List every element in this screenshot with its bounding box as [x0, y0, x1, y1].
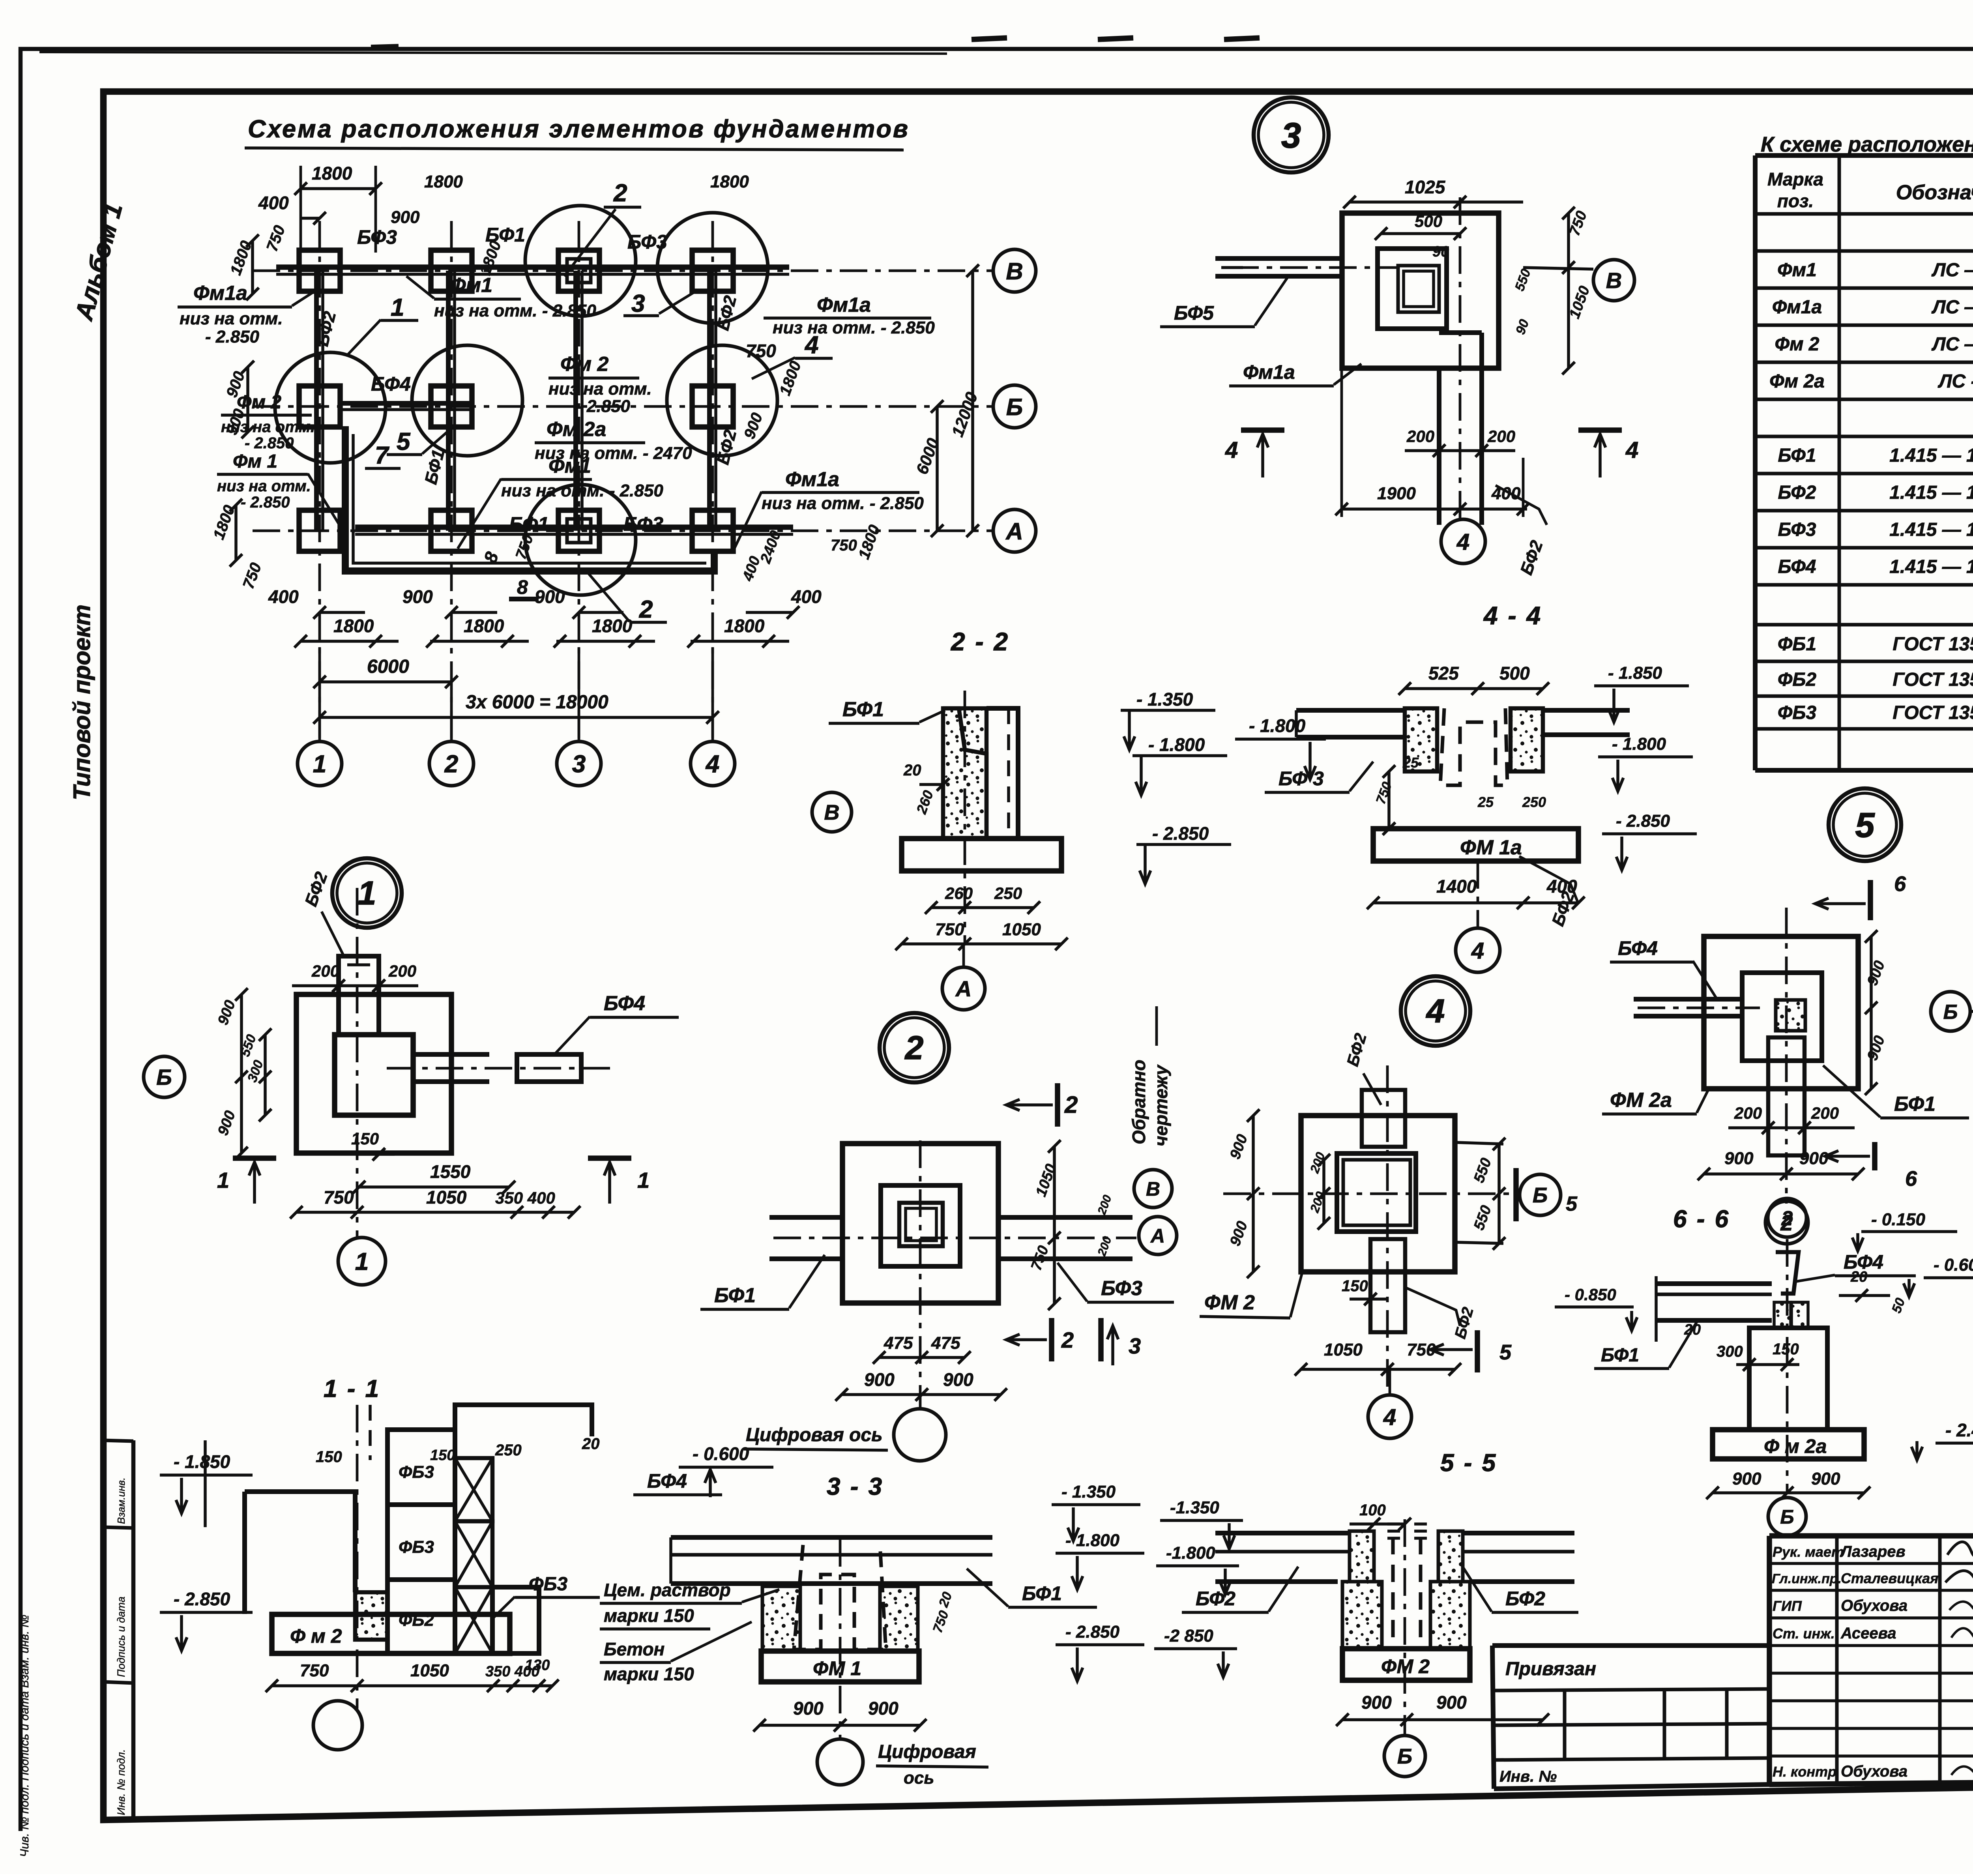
- svg-text:2: 2: [639, 596, 653, 623]
- detail 1 beam БФ4 right: [413, 1052, 489, 1057]
- svg-text:- 2.850: - 2.850: [1152, 823, 1209, 844]
- svg-text:Фм 2а: Фм 2а: [547, 418, 606, 441]
- detail 1 column: [339, 956, 379, 1035]
- svg-text:ФМ 1: ФМ 1: [813, 1657, 861, 1679]
- signatures squiggles: [1947, 1533, 1973, 1558]
- svg-text:В: В: [1006, 258, 1023, 285]
- svg-text:ФМ 2а: ФМ 2а: [1610, 1089, 1672, 1112]
- svg-text:750: 750: [935, 920, 964, 939]
- svg-text:Б: Б: [1533, 1183, 1548, 1207]
- svg-text:Привязан: Привязан: [1505, 1659, 1596, 1679]
- svg-text:БФ1: БФ1: [1778, 445, 1816, 466]
- svg-text:низ на отм.: низ на отм.: [180, 309, 283, 328]
- svg-text:300: 300: [1717, 1343, 1743, 1360]
- svg-text:900: 900: [943, 1369, 973, 1390]
- section 1-1 ledge top: [455, 1405, 592, 1436]
- svg-text:А: А: [955, 976, 972, 1001]
- svg-text:200: 200: [311, 962, 339, 980]
- svg-text:250: 250: [1522, 794, 1546, 810]
- svg-text:6: 6: [1894, 872, 1906, 896]
- svg-text:4: 4: [705, 751, 719, 778]
- svg-text:Фм 2а: Фм 2а: [1769, 371, 1825, 392]
- svg-text:1400: 1400: [1436, 876, 1477, 897]
- svg-text:ГОСТ 13579 - 78: ГОСТ 13579 - 78: [1893, 702, 1973, 723]
- svg-text:1050: 1050: [1324, 1340, 1363, 1359]
- svg-text:Сталевицкая: Сталевицкая: [1841, 1570, 1938, 1586]
- title block frame: [1769, 1533, 1973, 1539]
- svg-text:низ на отм. - 2.850: низ на отм. - 2.850: [762, 494, 924, 513]
- svg-text:Схема расположения элементов: Схема расположения элементов фундаментов: [248, 115, 910, 143]
- svg-text:900: 900: [1732, 1469, 1761, 1488]
- svg-text:Фм 2: Фм 2: [560, 353, 609, 376]
- svg-text:3: 3: [1129, 1333, 1141, 1358]
- svg-text:3x 6000 = 18000: 3x 6000 = 18000: [466, 692, 608, 713]
- plan axis grid lines: [318, 221, 321, 741]
- svg-text:2: 2: [1064, 1092, 1078, 1118]
- section 6-6 БФ4 trapezoid: [1776, 1252, 1799, 1294]
- svg-text:поз.: поз.: [1777, 191, 1814, 211]
- svg-text:2: 2: [444, 751, 458, 778]
- svg-text:900: 900: [1724, 1149, 1754, 1168]
- section 3-3 slab band: [671, 1535, 992, 1540]
- svg-text:ФБ3: ФБ3: [399, 1462, 434, 1482]
- svg-text:- 1.350: - 1.350: [1136, 689, 1193, 710]
- svg-text:- 2.850: - 2.850: [205, 327, 260, 346]
- svg-text:900: 900: [864, 1369, 895, 1390]
- detail 5 beam left: [1634, 997, 1742, 1002]
- detail 4 inner pad: [1337, 1153, 1416, 1232]
- svg-text:низ на отм. - 2.850: низ на отм. - 2.850: [434, 301, 596, 320]
- svg-text:Марка: Марка: [1767, 169, 1823, 189]
- svg-text:200: 200: [1811, 1104, 1839, 1122]
- plan foundation pads: [299, 250, 340, 291]
- section 2-2 base pad: [902, 839, 1061, 871]
- svg-text:Фм1: Фм1: [450, 274, 492, 297]
- svg-text:Рук. мает: Рук. мает: [1773, 1544, 1844, 1560]
- section 1-1 block stack: [387, 1430, 455, 1505]
- svg-text:низ на отм.: низ на отм.: [217, 477, 311, 495]
- svg-text:Фм1: Фм1: [548, 455, 591, 477]
- detail 5 section mark 6 top: [1868, 880, 1873, 920]
- svg-text:А: А: [1150, 1225, 1165, 1247]
- svg-text:Фм 2: Фм 2: [1775, 334, 1819, 355]
- svg-text:Фм 2: Фм 2: [237, 392, 281, 413]
- svg-text:Б: Б: [1943, 1001, 1958, 1024]
- svg-text:А: А: [1005, 518, 1023, 545]
- svg-text:1550: 1550: [430, 1161, 471, 1182]
- section 5-5 hatched blocks: [1342, 1582, 1382, 1649]
- svg-text:20: 20: [582, 1435, 600, 1453]
- svg-text:Фм1: Фм1: [1777, 260, 1817, 281]
- svg-text:БФ1: БФ1: [509, 513, 549, 535]
- svg-text:500: 500: [1499, 663, 1530, 683]
- svg-text:Н. контр: Н. контр: [1773, 1764, 1836, 1780]
- svg-text:БФ4: БФ4: [604, 992, 645, 1015]
- svg-text:100: 100: [1359, 1502, 1386, 1519]
- svg-text:20: 20: [903, 762, 921, 779]
- svg-text:1800: 1800: [592, 616, 633, 636]
- section 1-1 x-blocks: [455, 1458, 492, 1521]
- svg-text:900: 900: [868, 1698, 899, 1719]
- svg-text:БФ 3: БФ 3: [1279, 768, 1324, 790]
- title block rows left part: [1769, 1562, 1973, 1565]
- svg-text:2 - 2: 2 - 2: [951, 627, 1009, 656]
- svg-text:150: 150: [430, 1447, 455, 1464]
- svg-text:1800: 1800: [424, 172, 463, 191]
- svg-text:Фм1а: Фм1а: [1772, 297, 1822, 318]
- plan axis circles 1-4: [298, 741, 342, 786]
- svg-text:2: 2: [1781, 1207, 1793, 1230]
- svg-text:низ на отм. - 2.850: низ на отм. - 2.850: [501, 481, 663, 500]
- svg-text:4: 4: [1225, 437, 1238, 463]
- detail 1 inner pad: [335, 1035, 413, 1115]
- plan pit edge outline: [345, 426, 714, 571]
- detail 3 node circle 4: [1441, 519, 1485, 564]
- detail 4 column strips: [1362, 1090, 1405, 1147]
- svg-text:1: 1: [391, 294, 404, 321]
- svg-text:БФ1: БФ1: [714, 1284, 756, 1307]
- svg-text:Обозначение: Обозначение: [1896, 181, 1973, 204]
- svg-text:- 2.850: - 2.850: [241, 494, 290, 511]
- svg-text:4: 4: [1471, 938, 1484, 964]
- svg-text:500: 500: [1415, 212, 1442, 230]
- svg-text:БФ1: БФ1: [1894, 1093, 1936, 1116]
- section 3-3 base pad ФМ1: [761, 1651, 919, 1682]
- svg-text:ЛС — 6: ЛС — 6: [1931, 334, 1973, 355]
- svg-text:БФ1: БФ1: [1022, 1582, 1062, 1605]
- svg-text:150: 150: [1342, 1277, 1368, 1295]
- section 1-1 base pad Фм2: [272, 1614, 510, 1653]
- svg-text:- 2.470: - 2.470: [1945, 1420, 1973, 1440]
- svg-text:3: 3: [572, 751, 586, 778]
- section 3-3 axis circle: [817, 1739, 863, 1785]
- svg-text:1 - 1: 1 - 1: [324, 1375, 380, 1402]
- detail 3 section marks 4: [1241, 427, 1284, 433]
- svg-text:БФ2: БФ2: [1778, 482, 1816, 503]
- svg-text:Инв. № подл.: Инв. № подл.: [115, 1749, 127, 1815]
- svg-text:1800: 1800: [464, 616, 504, 636]
- svg-text:900: 900: [535, 586, 565, 607]
- svg-text:4 - 4: 4 - 4: [1483, 601, 1542, 630]
- svg-text:1050: 1050: [410, 1661, 449, 1680]
- svg-text:- 2.850: - 2.850: [1065, 1622, 1120, 1642]
- svg-text:ФБ3: ФБ3: [399, 1537, 434, 1557]
- svg-text:- 1.350: - 1.350: [1061, 1482, 1116, 1502]
- detail 2 axis to circle: [919, 1140, 922, 1408]
- plan foundation beam БФ4 row Б: [341, 401, 470, 406]
- svg-text:750: 750: [1407, 1340, 1436, 1359]
- svg-text:Асеева: Асеева: [1840, 1625, 1896, 1642]
- plan foundation beams row А: [355, 524, 793, 530]
- svg-text:Лазарев: Лазарев: [1840, 1543, 1906, 1560]
- svg-text:Фм 1: Фм 1: [233, 451, 277, 472]
- svg-text:Чив. № подл. Подпись и дата: Чив. № подл. Подпись и дата Взам. инв. №: [18, 1615, 31, 1857]
- svg-text:900: 900: [1436, 1692, 1467, 1713]
- svg-text:-2 850: -2 850: [1164, 1626, 1213, 1646]
- svg-text:750: 750: [300, 1661, 329, 1680]
- detail 5 section mark 6 bottom: [1872, 1142, 1878, 1170]
- svg-text:3: 3: [1281, 116, 1301, 155]
- section 5-5 rebar marks: [1387, 1522, 1400, 1526]
- svg-text:2: 2: [613, 180, 627, 207]
- section 6-6 mortar blocks: [1774, 1302, 1791, 1328]
- detail 5 inner pad: [1742, 973, 1822, 1061]
- svg-text:К схеме расположения элементо: К схеме расположения элементов фундамент…: [1761, 133, 1973, 156]
- svg-text:1.415 — 1 вып. 1: 1.415 — 1 вып. 1: [1889, 556, 1973, 577]
- svg-text:В: В: [824, 801, 840, 824]
- svg-text:200: 200: [1406, 427, 1434, 446]
- svg-text:4: 4: [1383, 1404, 1396, 1430]
- svg-text:2: 2: [1061, 1327, 1074, 1352]
- svg-text:марки 150: марки 150: [604, 1664, 694, 1684]
- svg-text:ГОСТ 13579 - 78: ГОСТ 13579 - 78: [1893, 669, 1973, 690]
- detail 5 outer pad: [1704, 936, 1858, 1089]
- svg-text:ось: ось: [904, 1768, 934, 1788]
- svg-text:БФ3: БФ3: [1101, 1277, 1142, 1300]
- detail 4 marker circle: [1401, 976, 1470, 1046]
- detail 2 axis circles В А: [1134, 1170, 1172, 1208]
- section 2-2 column: [943, 708, 986, 839]
- svg-text:В: В: [1606, 268, 1622, 293]
- svg-text:6 - 6: 6 - 6: [1673, 1206, 1730, 1233]
- svg-text:750: 750: [746, 341, 776, 361]
- svg-text:1: 1: [637, 1168, 650, 1193]
- svg-text:низ на отм.: низ на отм.: [548, 379, 652, 399]
- svg-text:Цем. раствор: Цем. раствор: [604, 1580, 731, 1600]
- detail 1 node circle 1: [338, 1238, 386, 1285]
- svg-text:3: 3: [631, 290, 645, 317]
- svg-text:4: 4: [1456, 529, 1469, 555]
- svg-text:Ст. инж.: Ст. инж.: [1773, 1625, 1835, 1642]
- svg-text:-1.800: -1.800: [1166, 1543, 1215, 1563]
- svg-text:Цифровая: Цифровая: [878, 1741, 976, 1762]
- section 6-6 column: [1749, 1328, 1827, 1430]
- detail 4 node circle 4: [1368, 1395, 1411, 1438]
- svg-text:1900: 1900: [1377, 484, 1416, 503]
- svg-text:1.415 — 1 вып. 1: 1.415 — 1 вып. 1: [1889, 482, 1973, 503]
- svg-text:Б: Б: [156, 1065, 172, 1090]
- section 4-4 base pad ФМ1а: [1373, 829, 1578, 861]
- detail 1 outer pad: [296, 994, 451, 1153]
- svg-text:Бетон: Бетон: [604, 1639, 665, 1659]
- svg-text:Б: Б: [1780, 1506, 1794, 1528]
- svg-text:ФБ3: ФБ3: [529, 1574, 567, 1595]
- detail 3 marker circle: [1254, 97, 1329, 172]
- svg-text:350 400: 350 400: [495, 1189, 555, 1207]
- section 2-2 axis: [964, 691, 966, 945]
- section 3-3 dashed pier: [794, 1545, 886, 1649]
- detail 2 section mark 3: [1098, 1318, 1104, 1361]
- svg-text:марки 150: марки 150: [604, 1605, 694, 1626]
- svg-text:Фм1а: Фм1а: [193, 282, 247, 305]
- svg-text:БФ1: БФ1: [1601, 1345, 1639, 1366]
- svg-text:БФ4: БФ4: [647, 1470, 687, 1492]
- inner left strip column: [131, 1440, 136, 1820]
- svg-text:7: 7: [375, 442, 389, 469]
- svg-text:1.415 — 1 вып. 1: 1.415 — 1 вып. 1: [1889, 519, 1973, 540]
- svg-text:1: 1: [355, 1248, 369, 1275]
- svg-text:1.415 — 1 вып. 1: 1.415 — 1 вып. 1: [1889, 445, 1973, 466]
- svg-text:ЛС — 5: ЛС — 5: [1931, 260, 1973, 281]
- svg-text:БФ4: БФ4: [1778, 556, 1816, 577]
- svg-text:- 2.850: - 2.850: [576, 397, 631, 416]
- detail 3 axis В circle: [1593, 260, 1634, 301]
- svg-text:5: 5: [1566, 1193, 1578, 1215]
- detail 2 outer pad: [842, 1144, 998, 1303]
- svg-text:Фм1а: Фм1а: [817, 294, 871, 316]
- svg-text:200: 200: [1734, 1104, 1762, 1122]
- detail 4 section marks 5: [1513, 1168, 1519, 1221]
- section 6-6 node circle 2: [1768, 1198, 1806, 1237]
- privyazan table: [1492, 1643, 1769, 1648]
- svg-text:150: 150: [1773, 1341, 1799, 1358]
- svg-text:Цифровая ось: Цифровая ось: [746, 1425, 883, 1445]
- svg-text:1800: 1800: [710, 172, 749, 191]
- svg-text:25: 25: [1402, 755, 1419, 771]
- svg-text:- 0.600: - 0.600: [693, 1444, 749, 1464]
- svg-text:- 2.850: - 2.850: [174, 1589, 230, 1609]
- detail 5 axis Б circle: [1931, 992, 1970, 1031]
- svg-text:- 1.850: - 1.850: [174, 1451, 230, 1472]
- svg-text:Фм1а: Фм1а: [1243, 361, 1295, 383]
- detail 5 node circle 2: [1765, 1201, 1808, 1244]
- svg-text:ЛС - 6: ЛС - 6: [1938, 371, 1973, 392]
- svg-text:4: 4: [1625, 437, 1638, 463]
- title block verticals left part: [1835, 1536, 1839, 1784]
- svg-text:150: 150: [316, 1448, 342, 1466]
- svg-text:чертежу: чертежу: [1151, 1064, 1171, 1146]
- section 5-5 base pad ФМ2: [1342, 1649, 1470, 1680]
- section 5-5 axis Б circle: [1384, 1736, 1425, 1777]
- svg-text:90: 90: [1432, 243, 1449, 260]
- svg-text:1050: 1050: [1002, 920, 1041, 939]
- svg-text:БФ3: БФ3: [1778, 519, 1816, 540]
- svg-text:25: 25: [1477, 794, 1494, 810]
- section 2-2 axis circle В: [812, 792, 852, 832]
- svg-text:ФБ1: ФБ1: [1778, 634, 1816, 655]
- svg-text:Фм1а: Фм1а: [785, 468, 839, 491]
- detail 2 inner pads: [881, 1185, 960, 1266]
- svg-text:250: 250: [994, 884, 1022, 902]
- detail 3 beam from left: [1215, 256, 1342, 261]
- detail 1 axis Б circle: [144, 1056, 185, 1097]
- section 6-6 axis Б circle: [1768, 1498, 1806, 1535]
- section 5-5 speckled jambs: [1350, 1531, 1374, 1582]
- svg-text:475: 475: [931, 1333, 960, 1353]
- plan foundation beams row В: [276, 264, 789, 270]
- svg-text:130: 130: [525, 1657, 550, 1674]
- svg-text:- 2.850: - 2.850: [1616, 811, 1670, 831]
- detail 1 marker circle: [332, 858, 402, 928]
- section 5-5 dashed column: [1391, 1537, 1395, 1646]
- svg-text:БФ2: БФ2: [1196, 1588, 1235, 1610]
- detail 2 section mark 2: [1055, 1083, 1060, 1127]
- svg-text:ГОСТ 13579 - 78: ГОСТ 13579 - 78: [1893, 634, 1973, 655]
- svg-text:Обратно: Обратно: [1129, 1060, 1149, 1144]
- svg-text:5: 5: [1855, 805, 1875, 844]
- section 4-4 mortar blocks: [1405, 708, 1437, 771]
- svg-text:- 0.600: - 0.600: [1934, 1255, 1973, 1275]
- section 1-1 axis circle: [313, 1701, 362, 1750]
- svg-text:Обухова: Обухова: [1841, 1597, 1907, 1614]
- svg-text:4: 4: [1426, 992, 1445, 1030]
- svg-text:5: 5: [1499, 1341, 1512, 1364]
- svg-text:1: 1: [313, 751, 326, 778]
- section 1-1 mortar + side block: [355, 1592, 387, 1640]
- svg-text:525: 525: [1428, 663, 1459, 683]
- svg-text:900: 900: [391, 208, 420, 227]
- svg-text:Обухова: Обухова: [1841, 1763, 1907, 1780]
- svg-text:2: 2: [904, 1029, 924, 1066]
- svg-text:475: 475: [884, 1333, 913, 1353]
- svg-text:8: 8: [517, 576, 528, 598]
- svg-text:БФ2: БФ2: [1505, 1588, 1545, 1610]
- detail 5 marker circle: [1829, 788, 1901, 861]
- svg-text:1: 1: [217, 1168, 229, 1193]
- svg-text:- 1.800: - 1.800: [1249, 715, 1306, 736]
- svg-text:Б: Б: [1397, 1745, 1412, 1768]
- svg-text:БФ3: БФ3: [357, 226, 397, 248]
- svg-text:БФ5: БФ5: [1174, 302, 1214, 324]
- svg-text:260: 260: [945, 884, 973, 902]
- section 4-4 slab left: [1296, 708, 1407, 713]
- plan axis circles В Б А: [993, 249, 1036, 292]
- section 6-6 base pad Фм2а: [1713, 1430, 1864, 1459]
- section 4-4 node circle 4: [1456, 928, 1500, 972]
- svg-text:Взам.инв.: Взам.инв.: [115, 1477, 127, 1524]
- svg-text:- 1.850: - 1.850: [1608, 663, 1662, 683]
- section 4-4 dashed pier: [1440, 708, 1507, 785]
- svg-text:Типовой проект: Типовой проект: [69, 605, 95, 800]
- svg-text:В: В: [1146, 1178, 1160, 1200]
- plan right vertical dims 6000 12000: [936, 406, 939, 531]
- svg-text:- 2.850: - 2.850: [245, 434, 294, 452]
- svg-text:6000: 6000: [367, 656, 409, 677]
- section 3-3 mortar blocks: [762, 1586, 800, 1651]
- svg-text:400: 400: [258, 193, 289, 213]
- svg-text:Ф м 2а: Ф м 2а: [1764, 1435, 1827, 1457]
- svg-text:1800: 1800: [724, 616, 765, 636]
- svg-text:ФМ 1а: ФМ 1а: [1460, 836, 1522, 859]
- svg-text:400: 400: [268, 586, 299, 607]
- svg-text:900: 900: [1361, 1692, 1392, 1713]
- detail 2 beams: [769, 1215, 842, 1220]
- svg-text:ФМ 2: ФМ 2: [1204, 1291, 1255, 1314]
- svg-text:БФ1: БФ1: [842, 698, 884, 721]
- svg-text:ФБ3: ФБ3: [1778, 702, 1816, 723]
- svg-text:- 0.850: - 0.850: [1565, 1285, 1616, 1304]
- svg-text:Подпись и дата: Подпись и дата: [115, 1597, 127, 1677]
- detail 2 section mark 2 bottom: [1049, 1318, 1054, 1361]
- svg-text:3 - 3: 3 - 3: [827, 1473, 884, 1500]
- detail 3 inner pocket: [1378, 249, 1447, 329]
- plan node detail circles: [275, 352, 386, 463]
- detail 3 column strip down: [1437, 368, 1441, 525]
- svg-text:Гл.инж.пр.: Гл.инж.пр.: [1772, 1571, 1842, 1586]
- svg-text:- 1.800: - 1.800: [1612, 734, 1666, 754]
- section 5-5 slab band: [1215, 1531, 1350, 1535]
- detail 1 section marks: [233, 1155, 276, 1161]
- svg-text:- 0.150: - 0.150: [1871, 1210, 1926, 1229]
- svg-text:ФБ2: ФБ2: [1778, 669, 1816, 690]
- svg-text:1800: 1800: [333, 616, 374, 636]
- svg-text:Инв. №: Инв. №: [1499, 1768, 1557, 1785]
- svg-text:5 - 5: 5 - 5: [1440, 1449, 1497, 1477]
- svg-text:400: 400: [791, 586, 822, 607]
- svg-text:- 1.800: - 1.800: [1148, 734, 1205, 755]
- detail 3 plan outer pad: [1342, 213, 1499, 368]
- svg-text:1: 1: [358, 874, 376, 912]
